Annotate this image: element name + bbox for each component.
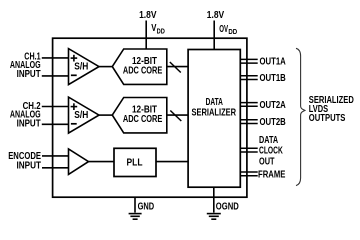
svg-text:DD: DD <box>228 27 237 36</box>
svg-text:INPUT: INPUT <box>17 160 42 171</box>
svg-text:1.8V: 1.8V <box>139 10 157 21</box>
svg-text:GND: GND <box>138 201 155 212</box>
svg-text:ADC CORE: ADC CORE <box>123 66 163 77</box>
wire VDD supply <box>145 21 147 50</box>
svg-text:OUT: OUT <box>259 156 275 167</box>
svg-text:INPUT: INPUT <box>17 119 41 130</box>
ground symbol OGND <box>207 214 221 220</box>
S/H amplifier 1 <box>69 49 100 85</box>
PLL block <box>114 148 156 176</box>
brace grouping LVDS outputs <box>296 48 305 185</box>
wire GND stub <box>134 197 136 212</box>
wire pair OUT1B <box>240 76 257 80</box>
bus slash 1 <box>170 62 181 73</box>
wire buffer to PLL <box>89 161 115 163</box>
wire OVDD supply <box>213 21 215 51</box>
input label CH.2 ANALOG INPUT <box>10 101 41 130</box>
svg-text:1.8V: 1.8V <box>207 10 225 21</box>
wire CH.1 + input <box>42 57 69 59</box>
pin label VDD <box>151 23 165 36</box>
wire encode + input <box>42 155 69 157</box>
input label CH.1 ANALOG INPUT <box>10 51 41 80</box>
wire S/H 2 to ADC core 2 <box>99 114 113 116</box>
label SERIALIZED LVDS OUTPUTS <box>309 95 354 124</box>
wire pair FRAME <box>240 172 257 176</box>
svg-text:DD: DD <box>157 27 166 36</box>
wire CH.2 + input <box>42 106 69 108</box>
pin label DATA CLOCK OUT <box>259 135 283 168</box>
svg-text:OUT2A: OUT2A <box>260 100 286 111</box>
pin label OVDD <box>219 24 237 36</box>
bus slash 2 <box>170 111 181 122</box>
svg-text:OUT1A: OUT1A <box>260 57 286 68</box>
wire pair OUT2A <box>240 103 257 107</box>
wire pair OUT1A <box>240 59 257 63</box>
svg-text:S/H: S/H <box>74 62 88 73</box>
ADC core 2 (12-bit) <box>112 98 167 133</box>
wire PLL to serializer <box>156 161 188 163</box>
ground symbol GND <box>129 214 142 220</box>
ADC core 1 (12-bit) <box>112 49 167 84</box>
svg-text:OUT1B: OUT1B <box>260 73 286 84</box>
svg-text:OUTPUTS: OUTPUTS <box>309 113 346 124</box>
svg-text:S/H: S/H <box>74 110 88 121</box>
wire S/H 1 to ADC core 1 <box>99 66 113 68</box>
svg-text:INPUT: INPUT <box>17 69 41 80</box>
bus wire ADC core 1 to serializer <box>167 66 188 68</box>
wire CH.2 - input <box>42 123 69 125</box>
svg-text:OV: OV <box>219 24 228 35</box>
wire pair DATA CLOCK OUT <box>240 148 257 152</box>
svg-text:OGND: OGND <box>216 202 239 213</box>
svg-text:CLOCK: CLOCK <box>259 146 283 157</box>
svg-text:ADC CORE: ADC CORE <box>123 114 163 125</box>
wire OGND stub <box>213 187 215 213</box>
outer chip boundary box <box>53 38 247 197</box>
wire encode - input <box>42 167 69 169</box>
wire CH.1 - input <box>42 75 69 77</box>
wire pair OUT2B <box>240 120 257 124</box>
svg-text:PLL: PLL <box>127 158 143 169</box>
encode buffer amplifier <box>69 149 89 175</box>
svg-text:DATA: DATA <box>259 135 278 146</box>
data serializer block <box>188 50 240 188</box>
S/H amplifier 2 <box>69 97 100 133</box>
svg-text:FRAME: FRAME <box>258 169 286 180</box>
svg-text:OUT2B: OUT2B <box>260 117 286 128</box>
input label ENCODE INPUT <box>8 151 41 172</box>
svg-text:SERIALIZER: SERIALIZER <box>192 107 237 118</box>
bus wire ADC core 2 to serializer <box>167 114 188 116</box>
